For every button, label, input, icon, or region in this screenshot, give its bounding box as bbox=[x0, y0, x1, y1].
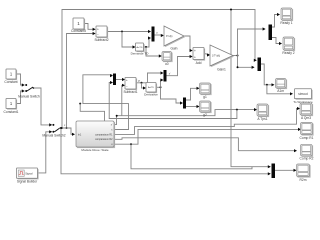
svg-text:Constant5: Constant5 bbox=[71, 29, 86, 33]
svg-text:Av/TD: Av/TD bbox=[148, 86, 154, 89]
svg-text:simout: simout bbox=[298, 92, 308, 96]
scope g2 bbox=[200, 101, 212, 117]
svg-text:1/T*u(k): 1/T*u(k) bbox=[212, 56, 220, 58]
label x on MuxA output bbox=[169, 71, 171, 75]
svg-text:Comp R1: Comp R1 bbox=[300, 136, 314, 140]
wire model out4 to scope Comp R2 bbox=[114, 138, 297, 153]
scope A1m bbox=[276, 79, 288, 93]
block Subtract2 bbox=[94, 26, 108, 42]
mux MuxA bbox=[164, 70, 167, 82]
wire Gain1 out to junction x237 bbox=[233, 55, 239, 57]
constant Constant1 value 1 bbox=[3, 99, 18, 114]
wire Mux3 out to scope R2m bbox=[275, 169, 297, 172]
wire Constant to Manual Switch in1 bbox=[16, 74, 27, 87]
svg-text:Constant: Constant bbox=[4, 80, 17, 84]
svg-text:Constant1: Constant1 bbox=[3, 110, 18, 114]
block To Workspace simout bbox=[293, 89, 313, 104]
svg-text:+: + bbox=[126, 78, 128, 82]
wire MuxA out to Add in2 bbox=[167, 55, 193, 76]
gain Gain triangle bbox=[164, 26, 185, 50]
wire Subtract1 in2 feedback riser bbox=[122, 84, 125, 116]
svg-text:Signal: Signal bbox=[25, 171, 33, 175]
svg-text:u: u bbox=[156, 31, 158, 34]
svg-text:u0: u0 bbox=[165, 62, 169, 66]
svg-text:Signal Builder: Signal Builder bbox=[17, 179, 38, 183]
svg-text:Manual Switch2: Manual Switch2 bbox=[42, 134, 65, 138]
svg-text:A Tps1: A Tps1 bbox=[257, 117, 267, 121]
wire Subtract2 out to MuxD in1 with branch to Demande block bbox=[107, 30, 151, 49]
wire DemuxB out1 to scope g1 bbox=[186, 87, 200, 100]
wire trigger branch to model top port bbox=[80, 104, 104, 121]
scope Comp R2 bbox=[300, 144, 314, 160]
wire model out2 feedback to MuxC in1 bbox=[79, 74, 128, 130]
scope R2m bbox=[297, 164, 311, 182]
svg-text:+: + bbox=[97, 28, 99, 32]
svg-text:Comp R2: Comp R2 bbox=[300, 156, 314, 160]
block Demande TD bbox=[131, 43, 150, 55]
svg-text:K*u(k): K*u(k) bbox=[166, 36, 173, 38]
svg-text:Subtract1: Subtract1 bbox=[123, 90, 137, 94]
wire DemuxB out2 to scope g2 bbox=[186, 105, 200, 108]
wire Demux1 out1 to scope Ready1 bbox=[272, 13, 280, 27]
wire feedback loop top (switch2 out up x62, along y9.5, down x255 to Mux2) bbox=[62, 10, 257, 129]
wire Gain out to Add in1 bbox=[184, 36, 192, 52]
wire MuxC out to Subtract1 in1 bbox=[116, 78, 125, 81]
wire Subtract1 out to MuxA in1 and Derivative bbox=[136, 71, 164, 89]
wire junction branch to Mux2 in2 bbox=[237, 56, 255, 69]
demux DemuxB bbox=[183, 98, 186, 109]
scope u0 bbox=[162, 52, 173, 67]
wire Manual Switch2 out to model In1 bbox=[59, 128, 75, 136]
demux Demux1 bbox=[269, 25, 273, 41]
wire switch2 out down x61 to Mux3 in2 bbox=[60, 127, 271, 175]
gain Gain1 triangle bbox=[210, 45, 234, 71]
svg-text:comparaison R2: comparaison R2 bbox=[95, 138, 113, 141]
label P on Subtract1 output bbox=[138, 79, 140, 83]
wire model out5 to scope Comp R1 and Mux3 in1 bbox=[114, 128, 301, 169]
scope A Qm3 bbox=[300, 103, 313, 120]
wire model out1 to scope A Tps1 and MuxC in2 bbox=[109, 81, 257, 125]
scope A Tps1 bbox=[257, 104, 269, 121]
wire MuxD out to Gain input bbox=[155, 34, 164, 37]
svg-text:Ready 2: Ready 2 bbox=[282, 51, 294, 55]
scope Ready1 bbox=[280, 8, 293, 25]
svg-text:Gain1: Gain1 bbox=[217, 67, 226, 71]
svg-text:Add: Add bbox=[196, 61, 202, 65]
svg-text:A Qm3: A Qm3 bbox=[301, 116, 311, 120]
svg-text:Subtract2: Subtract2 bbox=[94, 38, 108, 42]
svg-text:+: + bbox=[194, 55, 196, 59]
wire switch2 out up x67.5 to Subtract2 minus input bbox=[61, 32, 96, 129]
svg-text:−: − bbox=[97, 33, 99, 37]
wire junction up to Demux1 input bbox=[238, 27, 266, 55]
wire Demande block out to MuxD in2 and u0 scope bbox=[144, 36, 162, 57]
wire Derivative out to MuxA in2 and DemuxB bbox=[156, 78, 183, 104]
svg-text:P: P bbox=[138, 79, 140, 83]
manual switch Manual Switch bbox=[18, 87, 40, 99]
mux Mux3 bbox=[272, 164, 276, 179]
wire Signal Builder out up to Manual Switch2 in2 bbox=[38, 130, 55, 173]
svg-text:g2: g2 bbox=[203, 113, 207, 117]
manual switch Manual Switch2 bbox=[42, 128, 65, 137]
svg-text:Derivative: Derivative bbox=[144, 93, 158, 97]
wire branch x231 from top loop down to Mux3 in1 bbox=[230, 9, 271, 169]
mux MuxC bbox=[113, 74, 116, 86]
svg-text:Gain: Gain bbox=[171, 46, 178, 50]
svg-text:g1: g1 bbox=[203, 95, 207, 99]
svg-text:A1m: A1m bbox=[277, 89, 284, 93]
wire Demux1 out2 to scope Ready2 bbox=[272, 38, 282, 46]
wire Constant5 to Subtract2 plus input bbox=[84, 24, 96, 31]
mux MuxD bbox=[152, 27, 155, 42]
svg-text:comparaison R1: comparaison R1 bbox=[95, 133, 113, 136]
wire Mux2 out to scope A1m and To Workspace bbox=[260, 64, 294, 95]
scope Comp R1 bbox=[300, 123, 314, 140]
constant Constant value 1 bbox=[4, 69, 17, 84]
label x near wire x67 bbox=[64, 124, 66, 127]
svg-text:R2m: R2m bbox=[300, 178, 307, 182]
block Modele Roue State (subsystem) bbox=[76, 121, 115, 152]
svg-text:Ready 1: Ready 1 bbox=[280, 21, 292, 25]
block Derivative bbox=[144, 83, 158, 97]
wire Add out to Gain1 bbox=[204, 53, 210, 56]
svg-text:Manual Switch: Manual Switch bbox=[18, 95, 40, 99]
constant Constant5 value 1 bbox=[71, 18, 86, 33]
svg-text:Modele Roue: State: Modele Roue: State bbox=[81, 148, 109, 152]
label u on MuxD output bbox=[156, 31, 158, 34]
svg-text:+: + bbox=[194, 49, 196, 53]
mux Mux2 bbox=[258, 58, 262, 72]
block Add bbox=[193, 48, 205, 65]
wire model out3 to scope A Qm3 bbox=[114, 107, 300, 134]
block Subtract1 bbox=[123, 78, 137, 95]
svg-text:xʼ: xʼ bbox=[169, 71, 171, 75]
svg-text:x: x bbox=[64, 124, 66, 127]
wire Manual Switch out down to Manual Switch2 in1 bbox=[34, 88, 55, 127]
svg-text:Demande TD: Demande TD bbox=[131, 51, 150, 55]
svg-text:In1: In1 bbox=[78, 134, 82, 137]
block Signal Builder bbox=[17, 168, 39, 183]
svg-text:−: − bbox=[126, 84, 128, 88]
scope g1 bbox=[200, 83, 212, 99]
scope Ready2 bbox=[282, 37, 295, 55]
wire Constant1 to Manual Switch in2 bbox=[16, 89, 27, 103]
svg-text:Av/TD: Av/TD bbox=[136, 46, 142, 49]
